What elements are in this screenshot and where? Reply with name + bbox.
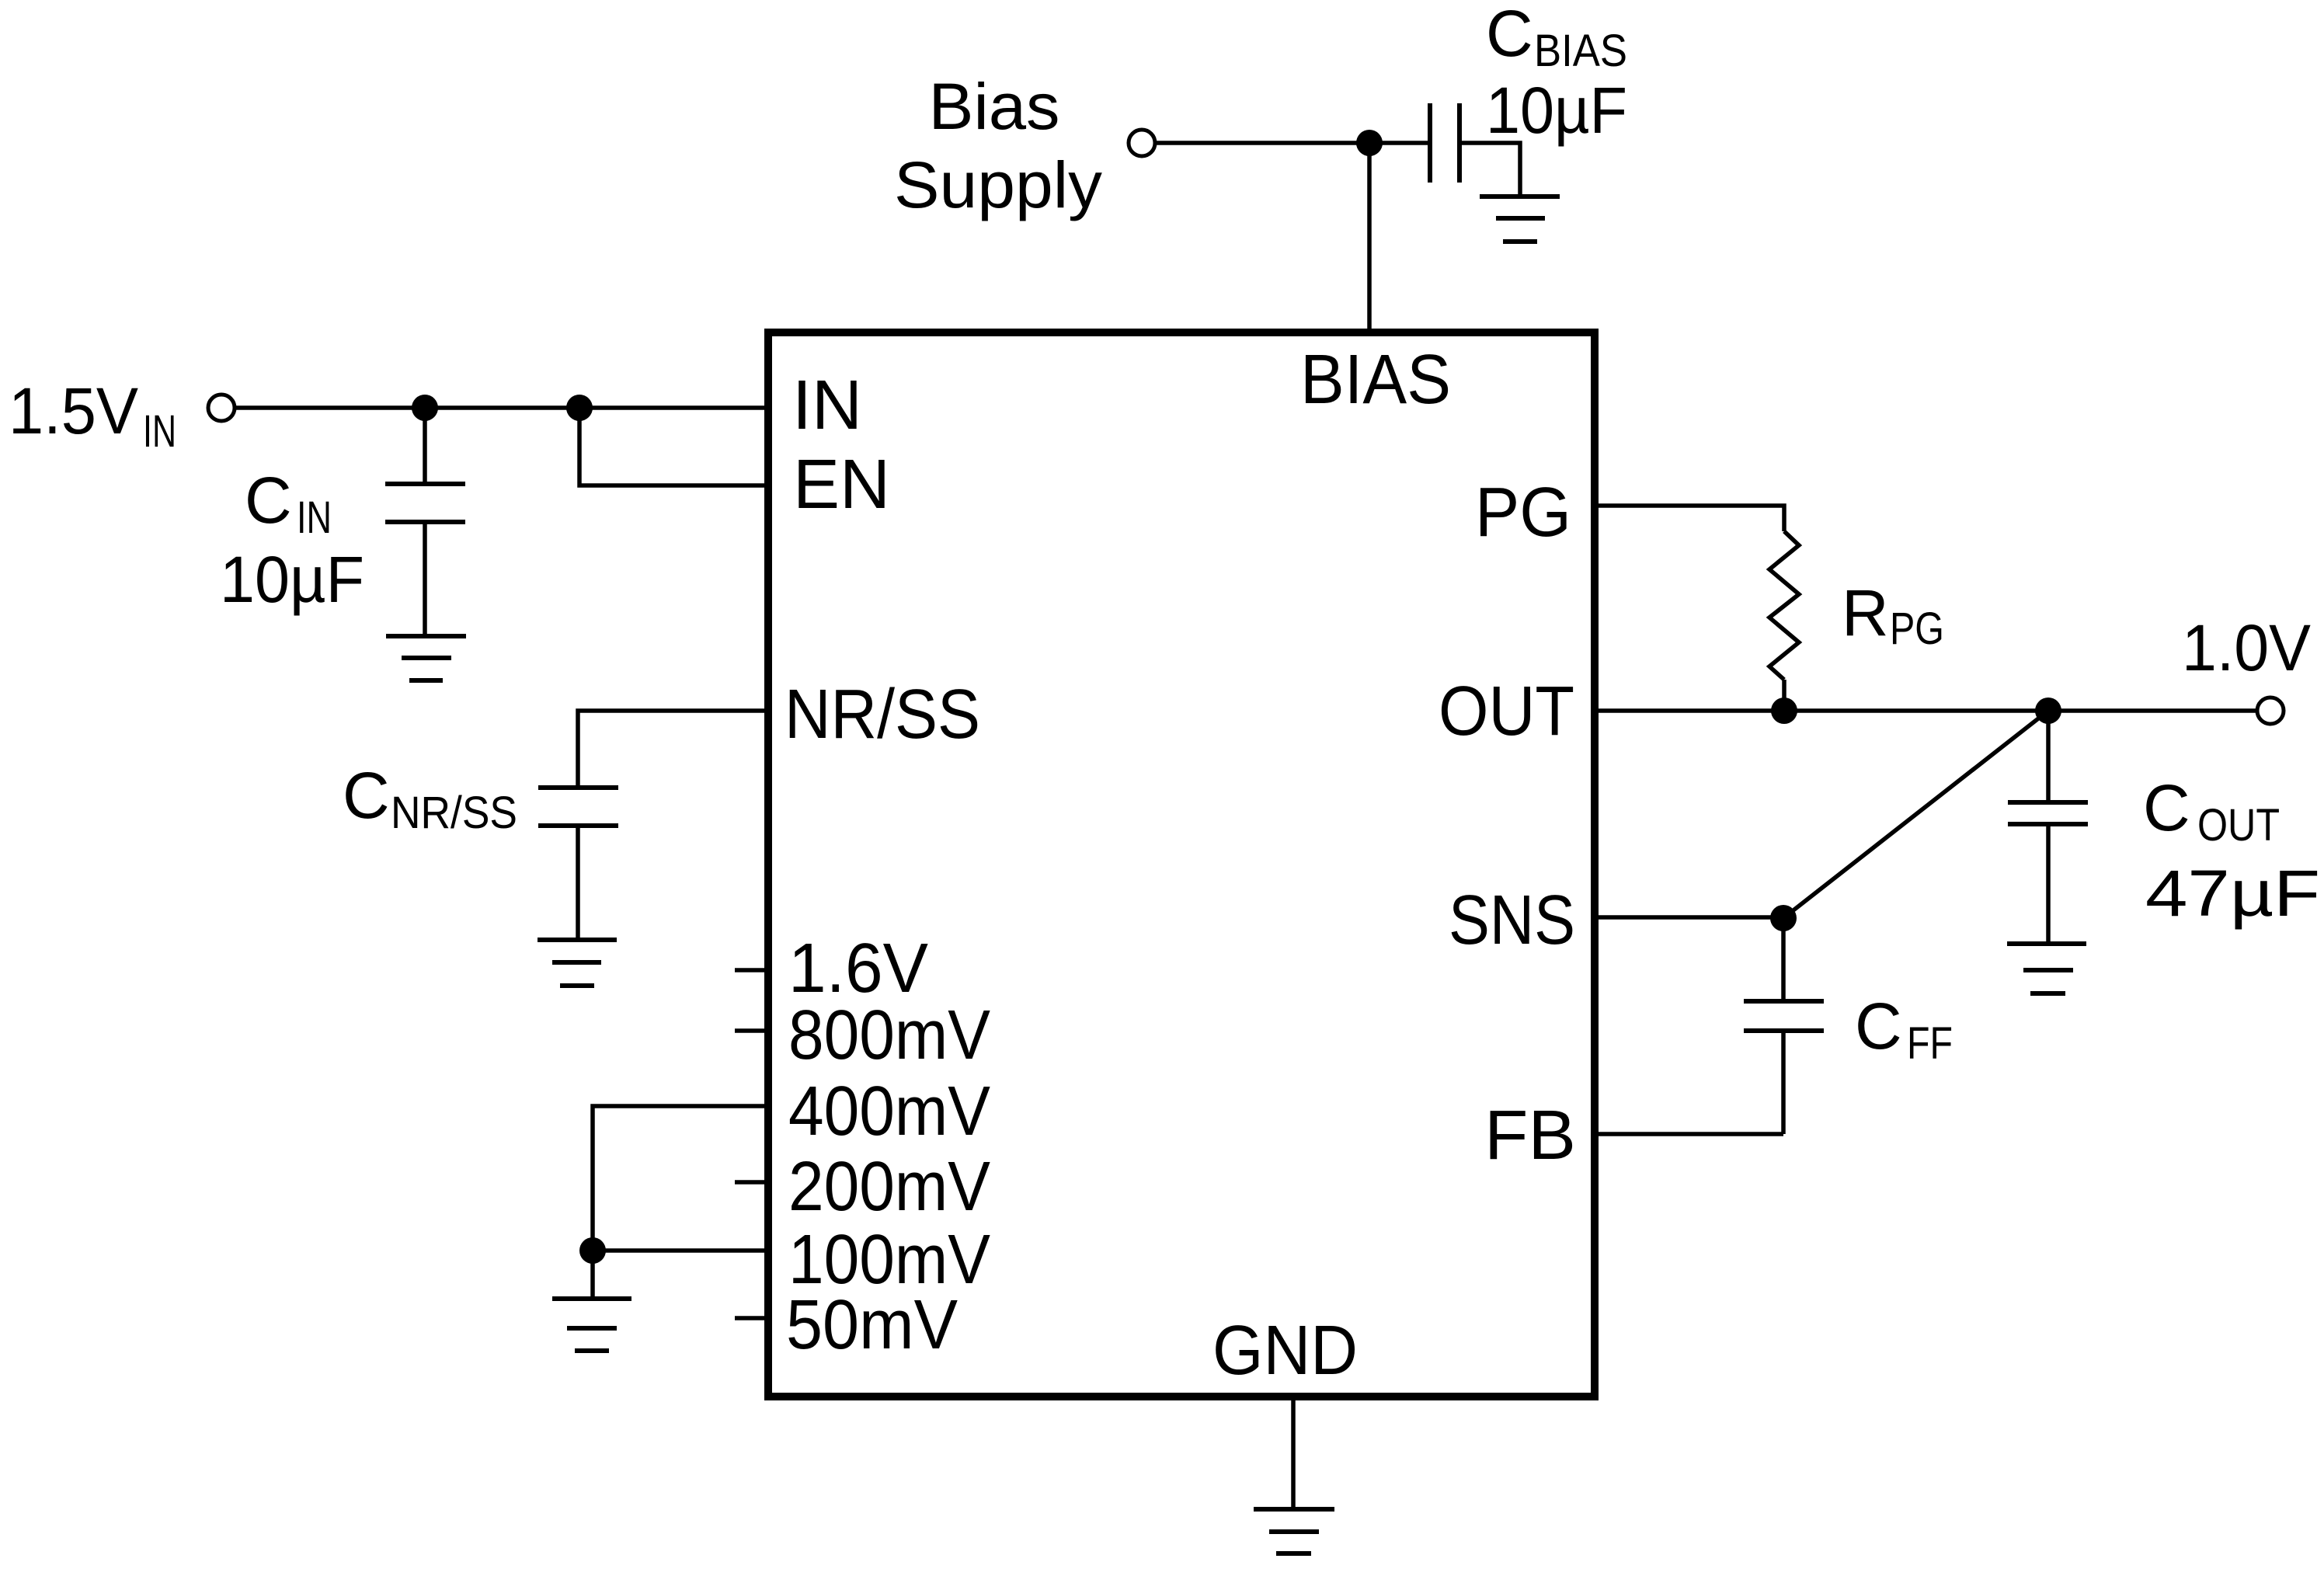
svg-text:R: R: [1842, 576, 1889, 649]
svg-text:OUT: OUT: [2197, 800, 2280, 851]
svg-text:400mV: 400mV: [788, 1073, 990, 1150]
terminal: 1.5VIN input: [208, 395, 235, 421]
pin label 100mV: [788, 1221, 990, 1299]
svg-text:47µF: 47µF: [2145, 857, 2320, 930]
junction: BIAS node: [1356, 130, 1383, 156]
junction: EN branch node: [566, 395, 593, 421]
label C_OUT: [2143, 771, 2280, 851]
svg-text:Supply: Supply: [894, 148, 1102, 221]
pin tick 200mV: [735, 1180, 771, 1185]
pin tick 50mV: [735, 1316, 771, 1320]
svg-text:FF: FF: [1907, 1018, 1953, 1069]
ground (C_OUT): [2007, 944, 2086, 993]
wire: sense diagonal (OUT node to SNS node): [1783, 711, 2048, 918]
svg-text:OUT: OUT: [1439, 673, 1574, 750]
pin label NR/SS: [785, 676, 980, 753]
label C_IN: [245, 464, 332, 543]
pin label BIAS: [1300, 341, 1451, 419]
svg-text:C: C: [343, 759, 390, 832]
wire: 400mV pin: [593, 1106, 771, 1249]
svg-text:IN: IN: [143, 406, 176, 457]
wire: C_BIAS to ground: [1462, 143, 1520, 195]
pin label OUT: [1439, 673, 1574, 750]
pin label SNS: [1449, 882, 1575, 959]
wire: BIAS node to C_BIAS: [1369, 141, 1428, 145]
wire: GND pin to ground: [1291, 1397, 1296, 1508]
capacitor C_IN: [385, 408, 465, 635]
junction: 100mV node: [579, 1237, 606, 1264]
svg-text:NR/SS: NR/SS: [785, 676, 980, 753]
capacitor C_OUT: [2008, 711, 2088, 942]
svg-text:1.5V: 1.5V: [9, 374, 138, 447]
label 10µF (C_BIAS): [1486, 74, 1627, 147]
wire: input to IN pin: [235, 405, 771, 410]
wire: PG pin to R_PG: [1595, 506, 1784, 531]
svg-text:10µF: 10µF: [1486, 74, 1627, 147]
svg-text:IN: IN: [792, 367, 862, 444]
pin label IN: [792, 367, 862, 444]
pin label 50mV: [786, 1286, 958, 1364]
pin tick 1.6V: [735, 968, 771, 972]
svg-text:200mV: 200mV: [788, 1148, 990, 1226]
svg-text:BIAS: BIAS: [1534, 26, 1627, 76]
wire: FB pin to C_FF: [1595, 1132, 1783, 1136]
ground (C_IN): [386, 636, 466, 680]
svg-text:1.6V: 1.6V: [788, 930, 928, 1007]
junction: C_IN node: [412, 395, 438, 421]
svg-text:Bias: Bias: [929, 70, 1060, 143]
label "Bias Supply": [894, 70, 1102, 221]
ground (GND): [1254, 1509, 1334, 1553]
pin label 400mV: [788, 1073, 990, 1150]
junction: R_PG / OUT: [1771, 698, 1797, 724]
svg-text:BIAS: BIAS: [1300, 341, 1451, 419]
terminal: 1.0V output: [2257, 698, 2284, 724]
pin label PG: [1475, 474, 1571, 551]
svg-text:C: C: [1486, 0, 1533, 70]
svg-text:C: C: [245, 464, 292, 537]
svg-text:IN: IN: [297, 492, 332, 543]
terminal: Bias Supply: [1129, 130, 1155, 156]
ground (C_BIAS): [1480, 197, 1560, 242]
wire: NR/SS pin to C_NR/SS: [578, 711, 771, 786]
svg-text:C: C: [2143, 771, 2190, 844]
label 1.5VIN: [9, 374, 176, 457]
svg-text:PG: PG: [1890, 604, 1944, 654]
label C_FF: [1855, 990, 1953, 1069]
svg-text:C: C: [1855, 990, 1902, 1063]
label 10µF (C_IN): [220, 543, 364, 616]
pin tick 800mV: [735, 1028, 771, 1033]
capacitor C_BIAS: [1430, 103, 1459, 183]
label C_NR/SS: [343, 759, 517, 838]
wire: bias supply to BIAS node: [1155, 141, 1369, 145]
wire: 100mV node to ground: [590, 1251, 595, 1296]
IC U1 body: [768, 332, 1595, 1397]
svg-text:NR/SS: NR/SS: [391, 788, 517, 838]
ground (voltage select): [552, 1299, 631, 1351]
svg-text:SNS: SNS: [1449, 882, 1575, 959]
wire: EN branch: [579, 408, 771, 485]
svg-text:50mV: 50mV: [786, 1286, 958, 1364]
capacitor C_FF: [1744, 918, 1824, 1134]
wire: BIAS node to BIAS pin: [1367, 143, 1372, 329]
resistor R_PG: [1769, 531, 1799, 680]
pin label EN: [793, 446, 890, 524]
svg-text:10µF: 10µF: [220, 543, 364, 616]
svg-text:EN: EN: [793, 446, 890, 524]
ground (C_NR/SS): [538, 940, 617, 986]
label C_BIAS: [1486, 0, 1627, 76]
wire: SNS pin to SNS node: [1595, 915, 1783, 920]
wire: OUT pin to 1.0V terminal: [1595, 708, 2257, 713]
svg-text:800mV: 800mV: [788, 997, 990, 1074]
label R_PG: [1842, 576, 1944, 654]
pin label FB: [1484, 1097, 1576, 1174]
svg-text:PG: PG: [1475, 474, 1571, 551]
pin label GND: [1212, 1312, 1358, 1390]
pin label 1.6V: [788, 930, 928, 1007]
pin label 800mV: [788, 997, 990, 1074]
label 47µF: [2145, 857, 2320, 930]
junction: SNS node: [1770, 905, 1797, 931]
junction: OUT / C_OUT node: [2035, 698, 2061, 724]
svg-text:GND: GND: [1212, 1312, 1358, 1390]
svg-text:FB: FB: [1484, 1097, 1576, 1174]
pin label 200mV: [788, 1148, 990, 1226]
capacitor C_NR/SS: [538, 788, 618, 938]
wire: R_PG to OUT node: [1782, 680, 1786, 711]
label 1.0V: [2182, 611, 2311, 684]
svg-text:1.0V: 1.0V: [2182, 611, 2311, 684]
wire: 100mV pin: [593, 1248, 771, 1253]
